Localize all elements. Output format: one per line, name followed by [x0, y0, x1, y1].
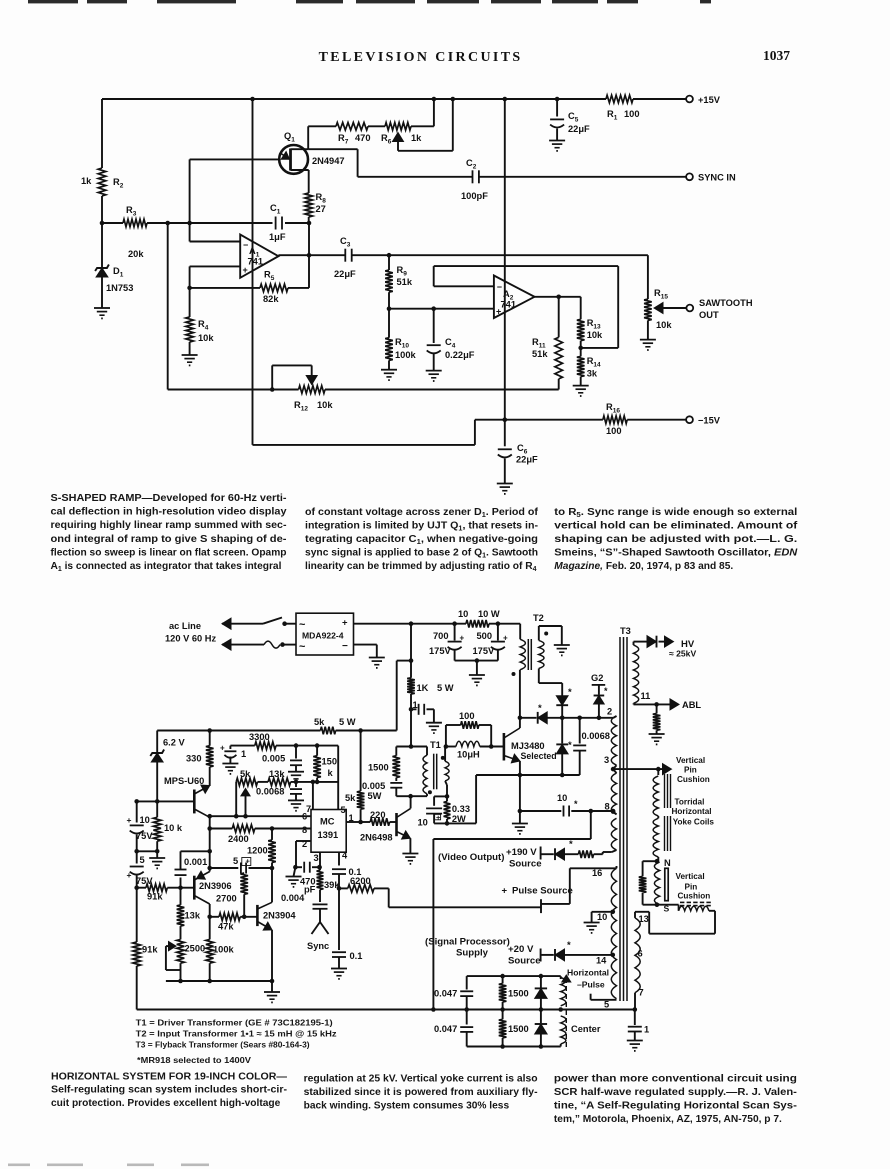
svg-text:R7: R7 [338, 133, 349, 146]
svg-text:N: N [664, 858, 671, 868]
wire 2N3906 base [181, 887, 195, 889]
resistor 13k pot row [258, 781, 269, 783]
resistor 10k bias [156, 801, 158, 817]
svg-text:3: 3 [314, 853, 319, 863]
potentiometer R15 10k [647, 255, 649, 299]
svg-text:6200: 6200 [350, 876, 371, 886]
svg-text:5: 5 [604, 1000, 609, 1010]
svg-text:91k: 91k [142, 945, 158, 955]
svg-text:Cushion: Cushion [677, 775, 710, 784]
svg-text:0.005: 0.005 [262, 754, 285, 764]
svg-text:*: * [568, 740, 572, 751]
svg-text:R10: R10 [395, 337, 409, 350]
svg-text:back winding. System consumes: back winding. System consumes 30% less [304, 1100, 510, 1111]
wire pin13 to yoke return [635, 911, 649, 913]
resistor R4 10k [189, 288, 191, 317]
svg-text:(Video Output): (Video Output) [438, 852, 504, 863]
svg-text:*: * [574, 799, 578, 809]
svg-text:10: 10 [458, 609, 468, 619]
svg-text:regulation at 25 kV. Vertical: regulation at 25 kV. Vertical yoke curre… [304, 1073, 538, 1084]
svg-text:10: 10 [597, 912, 607, 922]
wire A1 output row [278, 254, 345, 256]
svg-text:+: + [496, 307, 501, 317]
capacitor 1uF at 1K bottom [411, 708, 417, 710]
capacitor C3 22uF [344, 249, 346, 262]
wire pin6 row [210, 815, 311, 817]
wire emitter-resistor rail [166, 980, 272, 982]
svg-text:~: ~ [299, 619, 306, 631]
svg-text:0.22μF: 0.22μF [445, 350, 475, 360]
svg-text:13k: 13k [185, 911, 201, 921]
svg-text:OUT: OUT [699, 310, 719, 320]
svg-text:C2: C2 [466, 158, 477, 171]
svg-text:1k: 1k [81, 176, 92, 186]
svg-text:R13: R13 [587, 318, 601, 331]
svg-text:tegrating capacitor C1, when n: tegrating capacitor C1, when negative-go… [305, 534, 538, 546]
terminal -15V [686, 416, 693, 423]
svg-text:Horizontal: Horizontal [672, 807, 712, 816]
resistor 1500 damper [395, 747, 397, 756]
wire A1 inverting input [189, 223, 191, 242]
ground for 470pF [294, 867, 296, 876]
svg-text:2N3906: 2N3906 [199, 881, 232, 891]
svg-text:+20 V: +20 V [508, 944, 534, 955]
capacitor 0.0068 snubber [579, 718, 581, 744]
svg-text:R8: R8 [316, 192, 327, 205]
svg-text:Pin: Pin [685, 883, 698, 892]
svg-text:Pin: Pin [684, 765, 697, 774]
svg-text:sync signal is applied to base: sync signal is applied to base 2 of Q1. … [305, 548, 538, 560]
wire +190V source row [540, 847, 542, 860]
ground for filter caps [469, 674, 485, 676]
ground for R4 [182, 354, 198, 356]
resistor 47k row [210, 916, 219, 918]
svg-text:T1 = Driver Transformer (GE #: T1 = Driver Transformer (GE # 73C182195-… [136, 1018, 333, 1028]
resistor R16 100 [603, 416, 627, 424]
wire pot row left end [235, 782, 237, 816]
svg-text:10: 10 [140, 815, 150, 825]
svg-text:T2: T2 [533, 613, 544, 623]
ground for R14 [573, 385, 589, 387]
svg-text:SAWTOOTH: SAWTOOTH [699, 298, 753, 308]
resistor R8 27 [308, 170, 310, 193]
transformer centering coil [561, 978, 566, 1006]
ground for rail [271, 981, 273, 992]
svg-text:1μF: 1μF [269, 232, 286, 242]
wire MJ3480 emitter row [519, 761, 521, 811]
svg-text:Sync: Sync [307, 941, 329, 951]
svg-text:22μF: 22μF [334, 269, 356, 279]
diode zener 6.2V [156, 731, 158, 753]
resistor R9 51k [388, 255, 390, 270]
wire pin8 row with 10uF [520, 810, 561, 812]
svg-text:1: 1 [413, 700, 418, 710]
wire MPS-U60 base node [137, 800, 195, 802]
capacitor 500uF 175V [497, 624, 499, 641]
svg-text:51k: 51k [397, 277, 413, 287]
resistor R7 470 [336, 123, 368, 131]
svg-text:HORIZONTAL SYSTEM FOR 19-INCH: HORIZONTAL SYSTEM FOR 19-INCH COLOR— [51, 1071, 288, 1082]
svg-text:10μH: 10μH [457, 750, 480, 760]
resistor R5 82k [190, 287, 260, 289]
svg-text:T3 = Flyback Transformer (Sear: T3 = Flyback Transformer (Sears #80-164-… [136, 1040, 310, 1050]
svg-text:0.001: 0.001 [184, 857, 207, 867]
svg-text:1: 1 [349, 813, 354, 823]
svg-text:Center: Center [571, 1024, 601, 1034]
wire B+ rail [354, 623, 467, 625]
resistor 330 [209, 731, 211, 746]
transistor Q 2N3904 [256, 905, 259, 926]
svg-text:10: 10 [418, 818, 428, 828]
terminal +15V [686, 96, 693, 103]
svg-text:175V: 175V [473, 646, 496, 656]
wire base drive row [520, 717, 537, 719]
svg-text:*: * [569, 839, 573, 850]
svg-text:R3: R3 [126, 205, 137, 218]
svg-text:pF: pF [304, 885, 316, 895]
svg-text:+: + [460, 634, 465, 643]
diode HV rectifier [634, 641, 648, 643]
wire R3 row [102, 222, 123, 224]
wire yoke column top [657, 769, 659, 775]
IC U2 MC1391 [311, 810, 346, 853]
svg-text:−15V: −15V [698, 416, 721, 426]
svg-text:2N6498: 2N6498 [360, 833, 393, 843]
wire pin5 bracket [590, 994, 592, 1000]
resistor 5k 5W [321, 727, 336, 735]
transistor Q 2N3906 [193, 876, 196, 900]
svg-text:0.33: 0.33 [452, 804, 470, 814]
svg-text:−: − [342, 641, 348, 652]
svg-text:SCR half-wave regulated supply: SCR half-wave regulated supply.—R. J. Va… [554, 1087, 797, 1098]
capacitor C2 100pF [472, 170, 474, 183]
svg-text:1200: 1200 [247, 846, 268, 856]
wire 2N6498 collector [410, 796, 412, 808]
resistor 1500 upper [502, 976, 504, 983]
transformer T3 winding pin8 down [611, 818, 616, 850]
resistor 13k [180, 888, 182, 905]
svg-text:+: + [503, 634, 508, 643]
svg-text:stabilized since it is powered: stabilized since it is powered from auxi… [304, 1087, 538, 1098]
svg-text:*MR918 selected to 1400V: *MR918 selected to 1400V [137, 1055, 251, 1065]
svg-text:+: + [342, 618, 348, 629]
page-top scan artifact dashes [28, 0, 78, 3]
wire pulse feed step [590, 811, 592, 839]
transformer T3 winding pin13-6-7 [634, 912, 636, 918]
transformer vertical pincushion [654, 862, 659, 905]
capacitor 10uF 75V [136, 801, 138, 822]
svg-text:5: 5 [233, 856, 238, 866]
capacitor 0.047 lower [466, 1010, 468, 1025]
svg-text:vertical hold can be eliminate: vertical hold can be eliminated. Amount … [554, 520, 798, 531]
svg-text:requiring highly linear ramp s: requiring highly linear ramp summed with… [51, 520, 287, 531]
svg-text:R2: R2 [113, 177, 124, 190]
potentiometer R6 1k [385, 123, 411, 131]
capacitor 700uF 175V [454, 624, 456, 641]
svg-text:330: 330 [186, 754, 202, 764]
node T3 pin 10 tap grounded [611, 910, 616, 915]
wire A2 output [535, 296, 581, 298]
wire long center vertical from rail [252, 99, 254, 445]
potentiometer 2500 [180, 926, 182, 939]
sync input chevron [319, 909, 321, 922]
svg-text:5: 5 [140, 855, 145, 865]
wire T2 secondary top to ground [538, 626, 540, 640]
svg-text:6: 6 [302, 812, 307, 822]
svg-text:tem,” Motorola, Phoenix, AZ, 1: tem,” Motorola, Phoenix, AZ, 1975, AN-75… [554, 1114, 782, 1125]
resistor ABL bleeder [656, 704, 658, 713]
diode clamp horizontal [538, 712, 548, 724]
svg-text:0.005: 0.005 [362, 781, 385, 791]
svg-text:5k: 5k [240, 769, 251, 779]
svg-text:91k: 91k [147, 892, 163, 902]
svg-text:R5: R5 [264, 270, 275, 283]
svg-text:100k: 100k [395, 350, 417, 360]
transformer T3 winding pin2-pin3 [613, 716, 616, 718]
wire ac hot lead with switch [222, 618, 231, 629]
svg-text:2N3904: 2N3904 [263, 911, 296, 921]
ground for pin10 [584, 922, 600, 924]
svg-text:MJ3480: MJ3480 [511, 741, 545, 751]
wire 3300 row [230, 745, 254, 747]
svg-text:2: 2 [302, 839, 307, 849]
svg-text:MPS-U60: MPS-U60 [164, 776, 204, 786]
svg-text:0.047: 0.047 [434, 1024, 457, 1034]
svg-text:5W: 5W [368, 791, 382, 801]
svg-text:0.0068: 0.0068 [256, 787, 284, 797]
svg-text:Cushion: Cushion [678, 892, 711, 901]
svg-text:SYNC IN: SYNC IN [698, 173, 736, 183]
inductor horizontal yoke coil lower [657, 816, 659, 818]
resistor 150k [316, 746, 318, 756]
svg-text:5k: 5k [314, 717, 325, 727]
svg-text:1K: 1K [417, 683, 429, 693]
wire pin2 branch [296, 840, 311, 842]
capacitor 0.1 upper [332, 868, 346, 870]
wire R15 wiper to sawtooth terminal [659, 307, 686, 309]
resistor 91k upper [146, 884, 167, 892]
inductor 10uH [446, 746, 456, 748]
ground for C6 [497, 483, 513, 485]
svg-text:741: 741 [248, 257, 264, 267]
ground for R15 [640, 339, 656, 341]
resistor 1200 [271, 829, 273, 840]
wire T3 pin3 to vertical pin cushion [613, 765, 616, 769]
diode D1 zener 1N753 [101, 223, 103, 267]
wire 5k 5W row [157, 730, 320, 732]
capacitor C4 0.22uF [433, 309, 435, 343]
svg-text:1: 1 [644, 1025, 649, 1035]
potentiometer R12 10k [299, 386, 325, 394]
svg-text:T2 = Input Transformer 1•1 ≈ 1: T2 = Input Transformer 1•1 ≈ 15 mH @ 15 … [136, 1029, 337, 1039]
svg-text:741: 741 [501, 300, 517, 310]
svg-text:10k: 10k [656, 320, 672, 330]
transistor Q 2N6498 [395, 813, 398, 836]
svg-text:10k: 10k [317, 400, 333, 410]
wire 2N3906 collector vertical [209, 904, 211, 939]
svg-text:S-SHAPED RAMP—Developed for 60: S-SHAPED RAMP—Developed for 60-Hz verti- [51, 493, 287, 504]
svg-text:22μF: 22μF [516, 455, 538, 465]
node rail junctions [250, 97, 255, 102]
resistor 2700 [243, 894, 245, 917]
svg-text:3: 3 [604, 755, 609, 765]
svg-text:Source: Source [509, 859, 542, 870]
wire 100 ohm bypass loop [445, 725, 447, 747]
svg-text:A1 is connected as integrator: A1 is connected as integrator that takes… [51, 561, 282, 573]
resistor 220 [361, 821, 371, 823]
svg-text:cal deflection in high-resolut: cal deflection in high-resolution video … [51, 507, 287, 518]
svg-text:tine, “A Self-Regulating Horiz: tine, “A Self-Regulating Horizontal Scan… [554, 1100, 797, 1111]
wire 2N3904 emitter to rail [271, 930, 273, 981]
transformer T3 HV winding [633, 642, 635, 645]
wire 91k row [134, 885, 139, 890]
wire -15V row R16 [475, 419, 603, 421]
svg-text:R6: R6 [381, 133, 392, 146]
svg-text:+190 V: +190 V [506, 847, 537, 858]
svg-text:C3: C3 [340, 236, 351, 249]
ground for return cap [627, 1040, 643, 1042]
resistor R10 100k [388, 309, 390, 338]
wire MJ3480 collector riser [519, 670, 521, 728]
wire 10uF to 10k bottom [137, 850, 158, 852]
svg-text:power than more conventional c: power than more conventional circuit usi… [554, 1073, 797, 1084]
svg-text:Magazine, Feb. 20, 1974, p 83: Magazine, Feb. 20, 1974, p 83 and 85. [554, 561, 733, 572]
svg-text:1500: 1500 [368, 763, 389, 773]
resistor 3300 [255, 742, 276, 750]
wire T1 tap row [396, 795, 411, 797]
svg-text:Vertical: Vertical [676, 872, 705, 881]
wire filter cap common to ground [455, 660, 498, 662]
wire T1 primary top row [396, 746, 427, 748]
svg-text:75V: 75V [136, 831, 153, 841]
resistor 100 [461, 721, 479, 729]
svg-text:shaping can be adjusted with p: shaping can be adjusted with pot.—L. G. [554, 534, 797, 545]
wire R6 wiper to rail [398, 150, 453, 152]
svg-text:6: 6 [638, 949, 643, 959]
diode clamp upper [540, 976, 542, 987]
svg-text:3k: 3k [587, 369, 598, 379]
svg-text:100pF: 100pF [461, 191, 488, 201]
wire bottom rail [137, 1009, 635, 1011]
wire MC1391 pin4 branch [338, 852, 340, 865]
capacitor 0.004 [319, 890, 321, 902]
diode damper upper [556, 696, 568, 706]
svg-text:−: − [243, 240, 248, 250]
diode damper lower [561, 718, 563, 744]
svg-text:T1: T1 [430, 740, 441, 750]
svg-text:3300: 3300 [249, 732, 270, 742]
svg-text:10 k: 10 k [164, 823, 183, 833]
svg-text:1N753: 1N753 [106, 283, 133, 293]
svg-text:Pulse Source: Pulse Source [512, 886, 573, 897]
resistor R1 [606, 95, 633, 103]
capacitor 0.0068 [295, 782, 297, 787]
svg-text:51k: 51k [532, 349, 548, 359]
transformer T3 winding pin3-pin8 [613, 769, 616, 773]
svg-text:*: * [538, 703, 542, 714]
inductor horizontal yoke coil upper [653, 776, 658, 816]
svg-text:≈ 25kV: ≈ 25kV [669, 649, 696, 659]
potentiometer 5k [236, 778, 257, 786]
wire main vertical to C6 node [504, 99, 506, 420]
svg-text:1500: 1500 [508, 1024, 529, 1034]
svg-text:Yoke Coils: Yoke Coils [673, 818, 715, 827]
svg-text:120 V 60 Hz: 120 V 60 Hz [165, 634, 217, 644]
svg-text:6.2 V: 6.2 V [163, 738, 186, 748]
capacitor C6 22uF [504, 420, 506, 447]
svg-text:1037: 1037 [763, 48, 790, 63]
wire long vertical to bottom rail [432, 839, 434, 1010]
svg-text:Vertical: Vertical [676, 756, 705, 765]
svg-text:R15: R15 [654, 288, 668, 301]
svg-text:R11: R11 [532, 337, 546, 350]
capacitor 1uF return [634, 1010, 636, 1026]
svg-text:*: * [604, 686, 608, 696]
svg-text:11: 11 [641, 691, 651, 701]
svg-text:150: 150 [322, 757, 338, 767]
wire R2 branch [101, 99, 103, 168]
svg-text:Torridal: Torridal [675, 798, 705, 807]
svg-text:4: 4 [342, 851, 348, 861]
wire sync coupling row [308, 148, 357, 150]
svg-text:13: 13 [639, 914, 649, 924]
svg-text:Smeins, “S”-Shaped Sawtooth Os: Smeins, “S”-Shaped Sawtooth Oscillator, … [554, 548, 798, 559]
wire pin8 2400 row [210, 828, 233, 830]
ground for R10 [381, 369, 397, 371]
page-bottom scan artifact dashes [8, 1164, 30, 1167]
svg-text:of constant voltage across zen: of constant voltage across zener D1. Per… [305, 507, 539, 519]
resistor R14 3k [580, 348, 582, 357]
svg-text:8: 8 [605, 802, 610, 812]
svg-text:*: * [567, 940, 571, 951]
svg-text:700: 700 [433, 631, 449, 641]
svg-text:1k: 1k [411, 133, 422, 143]
ground for 1uF cap [426, 722, 442, 724]
transformer T3 winding pin16-10-14-5 [616, 866, 618, 868]
capacitor 5uF 75V [136, 851, 138, 863]
wire R7 R6 row [307, 126, 309, 149]
svg-text:82k: 82k [263, 294, 279, 304]
svg-text:R4: R4 [198, 319, 209, 332]
wire pin5 riser [337, 746, 339, 810]
svg-text:G2: G2 [591, 673, 603, 683]
resistor 100k [206, 939, 214, 963]
svg-text:13k: 13k [269, 769, 285, 779]
svg-text:~: ~ [299, 641, 306, 653]
wire C1 right to output node [308, 223, 310, 255]
air core dashes [680, 901, 684, 903]
svg-text:220: 220 [370, 810, 386, 820]
ground for C4 [426, 370, 442, 372]
wire 0.33 return to emitter [434, 822, 476, 824]
svg-text:20k: 20k [128, 249, 144, 259]
capacitor 10uF damping [433, 796, 435, 805]
wire pin1 stub [346, 821, 360, 823]
wire pin7 riser [312, 782, 314, 810]
svg-text:R14: R14 [587, 356, 601, 369]
svg-text:−: − [497, 282, 502, 292]
svg-text:+: + [127, 870, 132, 880]
wire ac neutral lead with fuse [222, 639, 231, 650]
svg-text:100: 100 [624, 109, 640, 119]
capacitor 0.1 lower [338, 888, 340, 950]
svg-text:1: 1 [241, 749, 246, 759]
ground for bridge [369, 657, 385, 659]
node R3 row junctions [100, 221, 105, 226]
wire A2 non-inverting row [389, 308, 494, 310]
svg-text:100: 100 [459, 711, 475, 721]
svg-text:1500: 1500 [508, 989, 529, 999]
